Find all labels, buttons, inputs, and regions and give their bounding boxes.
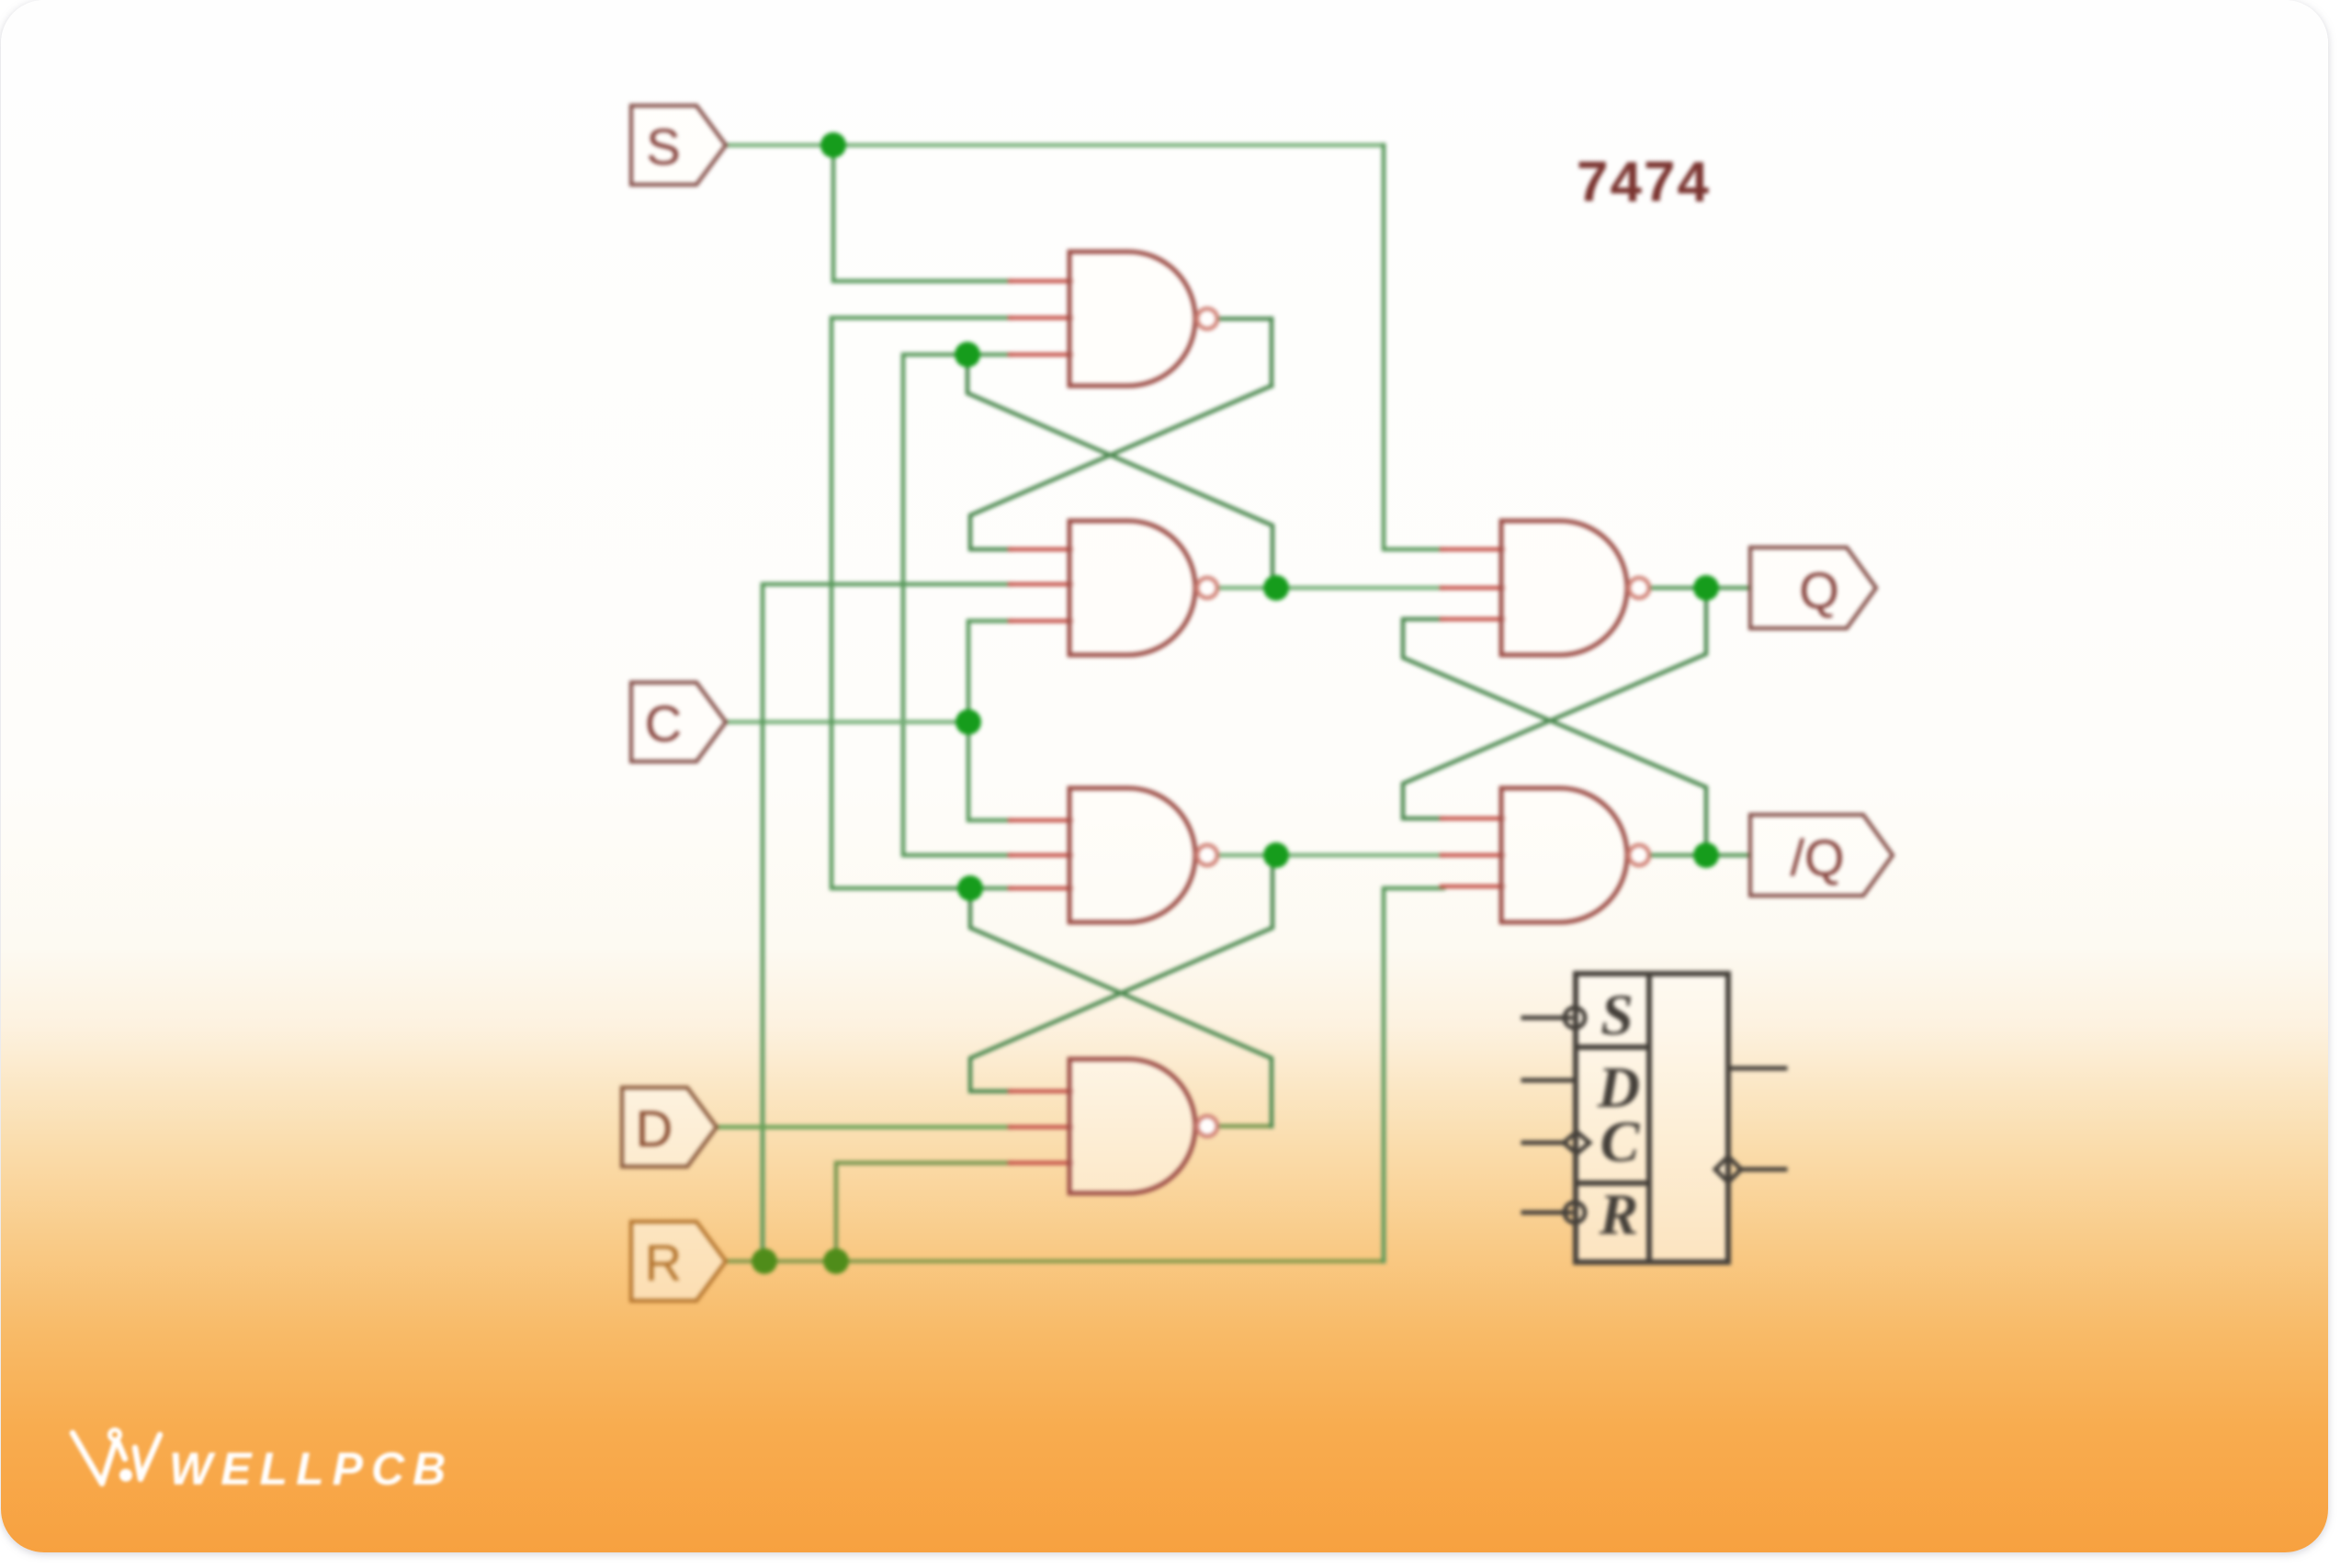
NAND gate G2	[1069, 521, 1195, 655]
junction C node	[955, 709, 981, 735]
NAND gate G5 bubble	[1629, 578, 1649, 598]
junction n2 at G1 input 3	[955, 342, 980, 367]
NAND gate G6 bubble	[1629, 845, 1649, 865]
wire R tag horizontal run	[726, 1259, 1384, 1264]
flip-flop pin D	[1523, 1078, 1575, 1083]
svg-text:WELLPCB: WELLPCB	[169, 1443, 454, 1495]
NAND gate G5	[1501, 521, 1627, 655]
NAND gate G2 bubble	[1197, 578, 1217, 598]
output tag /Q	[1750, 815, 1893, 896]
wire diagonal /Q feedback to G5 input 3	[1403, 619, 1706, 855]
wire R branch up to G2 input 2	[763, 584, 1012, 1261]
flip-flop symbol U1 body	[1576, 974, 1728, 1262]
wire D tag to G4 input 2	[717, 1125, 1012, 1130]
flip-flop pin /Q output with bubble	[1715, 1156, 1785, 1182]
flip-flop pin Q output	[1728, 1066, 1785, 1071]
wire node n4 to G3 input 3	[970, 886, 1012, 891]
wire diagonal Q feedback to G6 input 1	[1403, 588, 1706, 818]
NAND gate G1	[1069, 252, 1195, 386]
junction G3 output	[1263, 842, 1289, 868]
NAND gate G5 input stubs	[1442, 549, 1503, 619]
wire G1 output to corner	[1219, 317, 1272, 321]
wire node n2 to G1 input 3	[967, 353, 1012, 357]
wire C node down to G3 input 1	[968, 722, 1012, 820]
junction /Q node	[1693, 842, 1719, 868]
input tag C	[631, 682, 726, 761]
wire S vertical drop to G1 input 1	[833, 145, 1012, 281]
junction S node	[820, 132, 846, 158]
NAND gate G3 input stubs	[1010, 820, 1071, 888]
NAND gate G6	[1501, 788, 1627, 922]
output tag Q	[1750, 547, 1876, 628]
NAND gate G4 bubble	[1197, 1116, 1217, 1136]
wire G3 output to G6 input 2	[1219, 853, 1443, 858]
flip-flop pin R	[1523, 1202, 1585, 1223]
wire G6 output to /Q tag	[1651, 853, 1750, 858]
wire C tag to C node	[726, 720, 968, 725]
flip-flop pin labels	[1597, 982, 1641, 1247]
wire diagonal G4 output up to node n4	[970, 888, 1272, 1126]
input tag D	[622, 1088, 717, 1167]
wire R run up to G6 input 3	[1384, 888, 1443, 1261]
junction n4 at G3 input 3	[957, 875, 983, 901]
wire S bus down right side to G5 input 1	[1384, 145, 1443, 549]
flip-flop pin C	[1523, 1132, 1589, 1154]
wire S tag to top bus	[726, 143, 1384, 148]
input tag R	[631, 1222, 726, 1301]
wire G2 output to G5 input 2	[1219, 586, 1443, 591]
NAND gate G3	[1069, 788, 1195, 922]
NAND gate G2 input stubs	[1010, 549, 1071, 621]
wire diagonal G3 output down to G4 input 1	[970, 855, 1272, 1091]
NAND gate G3 bubble	[1197, 845, 1217, 865]
wire diagonal G2 output feedback to G1 input 3 node	[967, 355, 1272, 588]
wire G4 output to corner	[1219, 1124, 1272, 1129]
junction Q node	[1693, 575, 1719, 601]
WELLPCB logo W icon	[73, 1430, 160, 1484]
wire C node up to G2 input 3	[968, 621, 1012, 722]
wire G1 output down	[1270, 319, 1274, 386]
input tag S	[631, 106, 726, 185]
junction R node 1	[752, 1248, 777, 1274]
wire node n2 left branch down to G3 input 2	[903, 355, 1012, 855]
flip-flop pin S	[1523, 1008, 1585, 1028]
junction R node 2	[823, 1248, 849, 1274]
NAND gate G6 input stubs	[1442, 818, 1503, 886]
wire G5 output to Q tag	[1651, 586, 1750, 591]
wire node n4 feedback to G1 input 2	[831, 318, 1012, 888]
junction G2 output	[1263, 575, 1289, 601]
NAND gate G4	[1069, 1059, 1195, 1193]
NAND gate G1 bubble	[1197, 309, 1217, 329]
NAND gate G4 input stubs	[1010, 1091, 1071, 1163]
NAND gate G1 input stubs	[1010, 281, 1071, 355]
wire R branch up to G4 input 3	[836, 1163, 1012, 1261]
WELLPCB logo W icon dot	[119, 1469, 132, 1482]
wire diagonal G1 output to G2 input 1	[970, 386, 1272, 549]
